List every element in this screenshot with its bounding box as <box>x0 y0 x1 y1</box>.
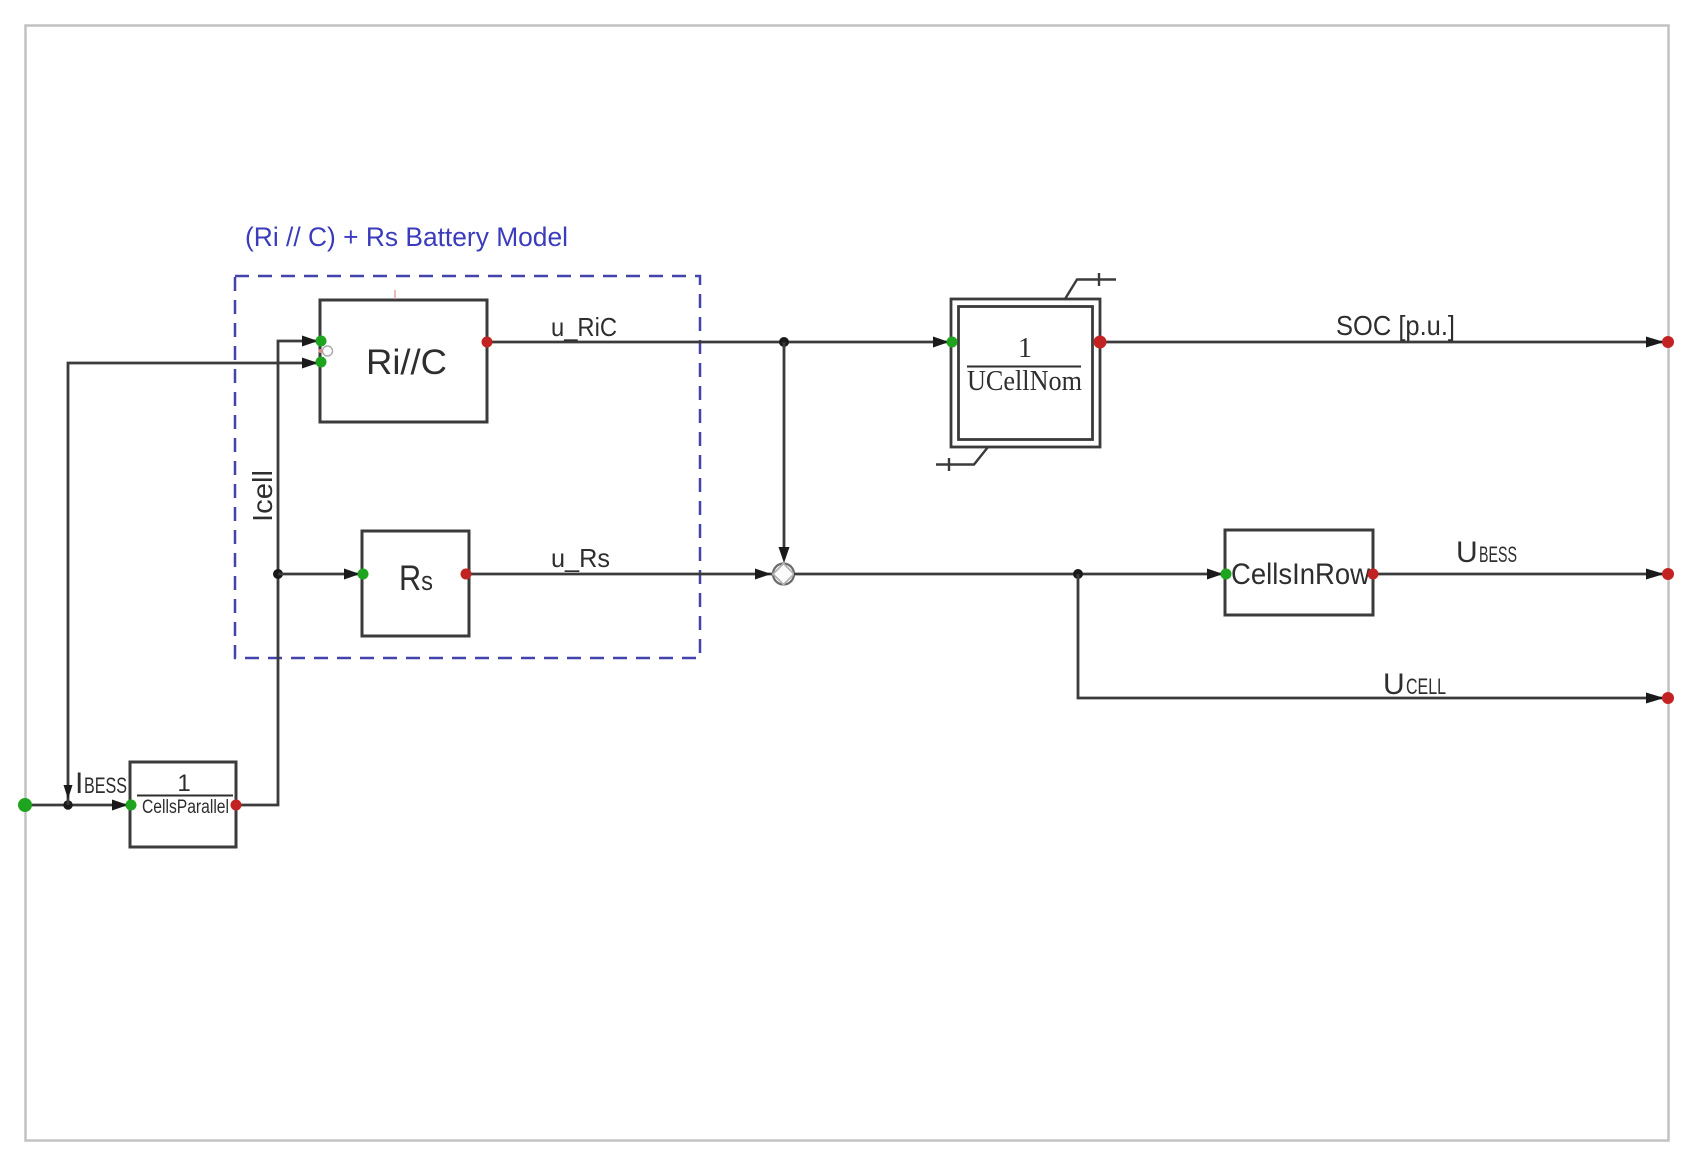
input terminal green dot <box>18 798 32 812</box>
svg-text:(Ri // C) + Rs Battery Model: (Ri // C) + Rs Battery Model <box>245 222 568 252</box>
red tick above Ri//C <box>394 290 396 299</box>
block 1/CellsParallel <box>130 762 236 847</box>
svg-text:U: U <box>1456 536 1478 569</box>
svg-text:UCellNom: UCellNom <box>967 366 1082 397</box>
block Rs <box>362 531 469 636</box>
svg-text:SOC [p.u.]: SOC [p.u.] <box>1336 310 1455 341</box>
terminal red dot UCELL <box>1662 692 1674 704</box>
svg-text:BESS: BESS <box>1479 542 1517 567</box>
summation point <box>773 564 794 585</box>
arrowhead SOC terminal <box>1646 337 1664 348</box>
wire u_Rs from Rs to summation <box>466 573 772 576</box>
port dot red CellsParallel out <box>231 800 242 811</box>
svg-text:I: I <box>75 767 83 800</box>
arrowhead UCELL terminal <box>1646 693 1664 704</box>
arrowhead into CellsInRow <box>1207 569 1223 580</box>
svg-text:1: 1 <box>1018 333 1032 364</box>
wire Icell junction to Rs <box>278 573 362 576</box>
dashed frame Battery Model group <box>235 276 700 658</box>
wire UCELL branch <box>1078 574 1666 698</box>
svg-text:u_RiC: u_RiC <box>551 312 617 342</box>
port ring marker Ri//C <box>323 346 333 356</box>
node junction Icell to Rs <box>273 569 283 579</box>
lower limit hook UCellNom <box>936 447 988 471</box>
block 1/UCellNom <box>951 299 1100 447</box>
terminal red dot UBESS <box>1662 568 1674 580</box>
arrowhead into Rs <box>344 569 360 580</box>
svg-text:u_Rs: u_Rs <box>551 543 610 573</box>
port dot green UCellNom in <box>947 337 958 348</box>
port dot red Ri//C out <box>482 337 493 348</box>
arrowhead into UCellNom <box>933 337 949 348</box>
port dot green CellsInRow in <box>1221 569 1232 580</box>
svg-text:U: U <box>1383 668 1405 701</box>
wire UBESS output <box>1373 573 1666 576</box>
wire vertical to summation <box>783 342 786 558</box>
port dot red Rs out <box>461 569 472 580</box>
wire summation to CellsInRow <box>794 573 1225 576</box>
arrowhead into summation left <box>755 569 771 580</box>
svg-text:CellsParallel: CellsParallel <box>142 797 229 818</box>
node junction before CellsInRow <box>1073 569 1083 579</box>
svg-text:Icell: Icell <box>247 470 278 522</box>
wire Icell vertical <box>236 341 320 805</box>
arrowhead down into IBESS junction <box>64 785 73 799</box>
port dot green Ri//C in2 <box>316 357 327 368</box>
arrowhead into Ri//C input2 <box>302 358 318 369</box>
arrowhead into Ri//C input1 <box>302 336 318 347</box>
port dot red UCellNom out <box>1094 336 1107 349</box>
port dot green Rs in <box>358 569 369 580</box>
svg-text:BESS: BESS <box>84 773 127 798</box>
port dot green CellsParallel in <box>126 800 137 811</box>
block CellsInRow <box>1225 530 1373 615</box>
port dot green Ri//C in1 <box>316 336 327 347</box>
arrowhead down into summation <box>779 547 790 563</box>
arrowhead into CellsParallel <box>112 800 128 811</box>
arrowhead UBESS terminal <box>1646 569 1664 580</box>
svg-text:Ri//C: Ri//C <box>366 343 447 382</box>
wire SOC output <box>1100 341 1666 344</box>
upper limit hook UCellNom <box>1065 273 1116 299</box>
wire IBESS input <box>25 804 130 807</box>
wire up from IBESS junction to Ri//C input2 <box>68 363 320 805</box>
terminal red dot SOC <box>1662 336 1674 348</box>
node junction IBESS <box>63 800 72 809</box>
block Ri//C <box>320 300 487 422</box>
port dot red CellsInRow out <box>1368 569 1379 580</box>
svg-text:1: 1 <box>177 770 190 797</box>
svg-text:CellsInRow: CellsInRow <box>1231 558 1370 591</box>
svg-text:CELL: CELL <box>1406 674 1446 699</box>
node junction on u_RiC <box>779 337 789 347</box>
wire u_RiC horizontal <box>487 341 951 344</box>
